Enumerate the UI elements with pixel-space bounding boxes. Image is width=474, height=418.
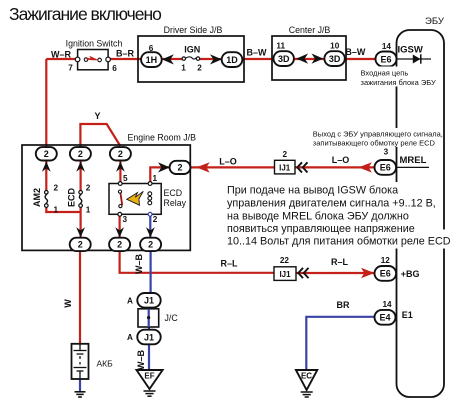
svg-text:3D: 3D bbox=[278, 54, 290, 64]
svg-text:14: 14 bbox=[382, 42, 392, 51]
svg-text:E4: E4 bbox=[379, 313, 390, 323]
svg-text:ЭБУ: ЭБУ bbox=[425, 16, 445, 27]
svg-text:3: 3 bbox=[123, 215, 128, 224]
svg-text:E1: E1 bbox=[402, 310, 413, 320]
svg-text:MREL: MREL bbox=[400, 155, 427, 166]
svg-text:10..14 Вольт для питания обмот: 10..14 Вольт для питания обмотки реле EC… bbox=[227, 236, 451, 248]
svg-text:6: 6 bbox=[112, 64, 117, 73]
svg-text:2: 2 bbox=[118, 149, 123, 159]
svg-text:AM2: AM2 bbox=[32, 188, 42, 207]
svg-text:22: 22 bbox=[280, 256, 290, 265]
svg-text:управления двигателем сигнала: управления двигателем сигнала +9..12 В, bbox=[227, 197, 436, 209]
svg-text:Center J/B: Center J/B bbox=[289, 25, 331, 35]
svg-text:EC: EC bbox=[301, 372, 312, 381]
svg-text:Driver Side J/B: Driver Side J/B bbox=[164, 25, 223, 35]
svg-text:6: 6 bbox=[149, 44, 154, 53]
svg-text:1: 1 bbox=[181, 64, 186, 73]
svg-text:W: W bbox=[63, 299, 73, 308]
svg-text:1: 1 bbox=[54, 206, 59, 215]
svg-text:1D: 1D bbox=[226, 55, 238, 65]
svg-text:2: 2 bbox=[177, 163, 182, 173]
svg-text:A: A bbox=[127, 297, 133, 306]
svg-text:2: 2 bbox=[54, 184, 59, 193]
svg-text:АКБ: АКБ bbox=[97, 359, 114, 369]
svg-text:11: 11 bbox=[276, 42, 285, 51]
svg-text:B–W: B–W bbox=[247, 48, 268, 58]
svg-text:A: A bbox=[127, 333, 133, 342]
svg-text:W–R: W–R bbox=[51, 50, 72, 60]
svg-text:B–R: B–R bbox=[116, 49, 135, 59]
svg-text:3D: 3D bbox=[329, 54, 341, 64]
svg-text:Входная цепь: Входная цепь bbox=[361, 69, 409, 78]
svg-text:2: 2 bbox=[44, 149, 49, 159]
svg-text:IGSW: IGSW bbox=[398, 44, 423, 55]
svg-text:L–O: L–O bbox=[219, 157, 237, 167]
svg-text:7: 7 bbox=[68, 64, 73, 73]
svg-text:ECD: ECD bbox=[164, 188, 183, 198]
svg-text:W–B: W–B bbox=[136, 350, 146, 371]
svg-text:2: 2 bbox=[197, 64, 202, 73]
svg-text:14: 14 bbox=[382, 300, 392, 309]
svg-text:J1: J1 bbox=[144, 296, 154, 306]
svg-text:2: 2 bbox=[78, 240, 83, 250]
svg-text:зажигания блока ЭБУ: зажигания блока ЭБУ bbox=[361, 78, 436, 87]
svg-text:2: 2 bbox=[153, 215, 158, 224]
svg-text:E6: E6 bbox=[380, 163, 391, 173]
svg-text:IJ1: IJ1 bbox=[279, 163, 291, 172]
svg-text:Relay: Relay bbox=[164, 198, 187, 208]
svg-text:появиться управляющее напряжен: появиться управляющее напряжение bbox=[227, 223, 415, 235]
svg-text:Ignition Switch: Ignition Switch bbox=[66, 39, 123, 49]
svg-text:B–W: B–W bbox=[345, 47, 366, 57]
svg-text:J1: J1 bbox=[144, 332, 154, 342]
svg-text:2: 2 bbox=[86, 184, 91, 193]
svg-text:IGN: IGN bbox=[184, 45, 200, 55]
svg-text:2: 2 bbox=[283, 150, 288, 159]
svg-text:10: 10 bbox=[330, 42, 340, 51]
svg-text:1H: 1H bbox=[146, 55, 158, 65]
svg-text:R–L: R–L bbox=[331, 257, 349, 267]
svg-text:2: 2 bbox=[78, 149, 83, 159]
svg-text:L–O: L–O bbox=[332, 155, 350, 165]
svg-text:2: 2 bbox=[148, 240, 153, 250]
svg-text:J/C: J/C bbox=[165, 313, 179, 323]
svg-text:Engine Room J/B: Engine Room J/B bbox=[128, 132, 197, 142]
svg-text:При подаче на вывод IGSW блока: При подаче на вывод IGSW блока bbox=[227, 184, 398, 196]
svg-text:EF: EF bbox=[144, 372, 154, 381]
svg-text:5: 5 bbox=[123, 174, 128, 183]
svg-text:E6: E6 bbox=[380, 54, 391, 64]
svg-text:Y: Y bbox=[94, 111, 100, 121]
svg-text:R–L: R–L bbox=[220, 259, 238, 269]
svg-text:Зажигание включено: Зажигание включено bbox=[9, 4, 161, 24]
svg-text:запитывающего обмотку реле ECD: запитывающего обмотку реле ECD bbox=[313, 139, 436, 148]
svg-text:12: 12 bbox=[381, 256, 391, 265]
svg-text:1: 1 bbox=[153, 174, 158, 183]
svg-text:3: 3 bbox=[384, 148, 389, 157]
svg-text:Выход с ЭБУ управляющего сигна: Выход с ЭБУ управляющего сигнала, bbox=[313, 129, 443, 138]
svg-text:E6: E6 bbox=[380, 269, 391, 279]
svg-text:1: 1 bbox=[86, 206, 91, 215]
svg-text:+BG: +BG bbox=[401, 269, 420, 279]
svg-text:2: 2 bbox=[117, 240, 122, 250]
svg-text:на выводе MREL блока ЭБУ должн: на выводе MREL блока ЭБУ должно bbox=[227, 210, 409, 222]
svg-text:ECD: ECD bbox=[66, 188, 76, 208]
svg-text:IJ1: IJ1 bbox=[279, 270, 291, 279]
svg-text:BR: BR bbox=[337, 300, 350, 310]
svg-text:W–B: W–B bbox=[134, 254, 144, 275]
